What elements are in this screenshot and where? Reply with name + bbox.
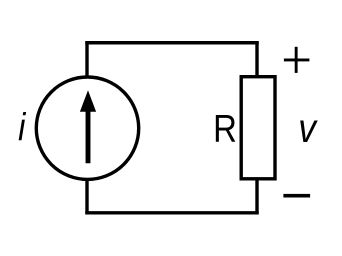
svg-text:i: i: [18, 106, 26, 149]
wire: top rail: [87, 41, 257, 44]
wire: bottom rail: [87, 211, 257, 214]
current source arrow: [80, 90, 96, 163]
wire: left vertical from current source bottom to bottom rail: [85, 180, 88, 213]
wire: right vertical from resistor bottom to bottom rail: [255, 179, 258, 213]
plus sign (voltage polarity +): [284, 47, 310, 73]
wire: right vertical from top rail to resistor top: [255, 43, 258, 76]
wire: left vertical from top rail to current source top: [85, 43, 88, 77]
svg-text:R: R: [213, 107, 237, 150]
current source I (circle): [36, 77, 138, 179]
resistor R (body): [241, 77, 275, 179]
minus sign (voltage polarity -): [283, 194, 310, 198]
svg-text:v: v: [298, 106, 318, 152]
